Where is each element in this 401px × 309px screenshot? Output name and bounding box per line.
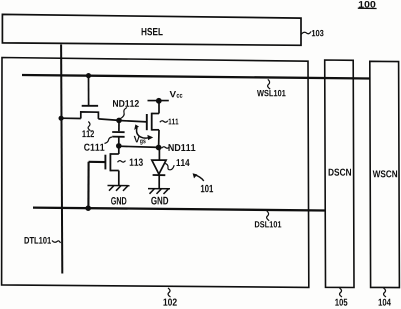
label GND left [111, 197, 126, 205]
capacitor C111 top plate [112, 131, 124, 133]
squiggle for 112 [88, 122, 90, 131]
label 112 [82, 130, 94, 137]
transistor T113 drain lead from C111 node [118, 146, 120, 154]
DSCN text [329, 169, 351, 176]
squiggle for ND111 [162, 147, 170, 149]
squiggle for DTL101 [52, 241, 61, 244]
transistor T113 bottom stub [110, 170, 118, 172]
wire DTL101 vertical data line [61, 45, 62, 274]
transistor T113 gate bar [104, 155, 106, 170]
transistor T113 top stub [110, 153, 118, 155]
label DTL101 [25, 237, 52, 244]
squiggle for 104 [384, 288, 387, 297]
label 102 [163, 299, 176, 306]
label 104 [379, 299, 391, 306]
node dot ND111 [156, 145, 162, 151]
label Vcc [170, 91, 183, 98]
label ND111 [169, 144, 196, 151]
node dot ND112 [116, 118, 122, 124]
wire T113 gate vertical to DSL101 [87, 162, 89, 208]
capacitor C111 lead bottom [118, 137, 120, 146]
WSCN text [373, 170, 397, 177]
label WSL101 [257, 90, 286, 96]
diode D114 triangle [152, 160, 166, 174]
Vgs arrowhead right [147, 135, 153, 140]
diode D114 anode lead [158, 148, 160, 161]
label ND112 [113, 100, 139, 107]
underline of 100 [358, 7, 377, 9]
transistor T112 channel hat [81, 112, 99, 119]
wire T112 drain to node ND112 [98, 119, 119, 121]
arrow for 101 [194, 175, 204, 181]
label C111 [84, 144, 104, 151]
label 111 [169, 119, 179, 125]
wire DSL101 data line [33, 208, 325, 211]
HSEL driver box 103 [2, 14, 301, 45]
transistor T112 gate bar [82, 105, 98, 107]
node dot on DTL101 [59, 116, 64, 121]
squiggle for 114 [165, 163, 174, 169]
transistor T111 bottom stub [152, 129, 159, 131]
squiggle for 102 [168, 288, 171, 297]
Vgs curved arrow [137, 128, 149, 138]
label DSL101 [255, 221, 281, 227]
Vgs arrowhead up [134, 124, 139, 130]
ground symbol left [108, 186, 130, 191]
HSEL text [142, 28, 163, 35]
label 113 [130, 159, 143, 166]
node dot on WSL101 at gate of 112 [86, 73, 91, 78]
transistor T113 source lead [118, 171, 120, 186]
transistor T111 source lead [158, 130, 160, 148]
DSCN driver box 105 [325, 60, 354, 288]
power rail Vcc [148, 100, 169, 102]
capacitor C111 lead top [118, 120, 120, 131]
squiggle for ND112 [121, 108, 128, 119]
transistor T111 channel bar [151, 113, 153, 131]
node dot on DSL101 [85, 205, 91, 211]
transistor T111 drain lead [158, 101, 160, 114]
squiggle for 103 [301, 32, 311, 35]
transistor T112 gate lead [88, 76, 90, 105]
wire T113 gate horizontal [89, 161, 106, 163]
squiggle for 113 [118, 161, 126, 163]
capacitor C111 bottom plate [112, 136, 124, 138]
label 101 [201, 185, 213, 193]
node dot Vcc [156, 98, 162, 104]
transistor T111 top stub [152, 113, 159, 115]
arrowhead 101 [193, 173, 198, 178]
squiggle for WSL101 [268, 79, 271, 89]
squiggle for DSL101 [267, 211, 270, 221]
transistor T113 channel bar [109, 153, 111, 171]
diode D114 cathode bar [153, 174, 166, 176]
wire C111 node to ND111 [119, 146, 159, 147]
transistor T111 gate bar [146, 114, 148, 130]
label 105 [335, 299, 347, 306]
label 103 [312, 30, 324, 36]
ground symbol right [148, 189, 170, 194]
WSCN driver box 104 [370, 61, 400, 287]
node dot below C111 [116, 143, 122, 149]
wire DTL101 to T112 source [61, 117, 81, 119]
label 114 [177, 159, 190, 166]
label 100 [359, 1, 376, 8]
pixel cell box 102 [2, 58, 309, 288]
wire WSL101 scan line [22, 75, 370, 79]
diode D114 cathode lead [158, 175, 160, 188]
squiggle for C111 [105, 137, 113, 144]
squiggle for 105 [340, 288, 343, 297]
label Vgs [134, 136, 146, 145]
label GND right [151, 197, 168, 205]
squiggle for 111 [160, 121, 168, 123]
wire ND112 to gate of T111 [119, 121, 147, 122]
